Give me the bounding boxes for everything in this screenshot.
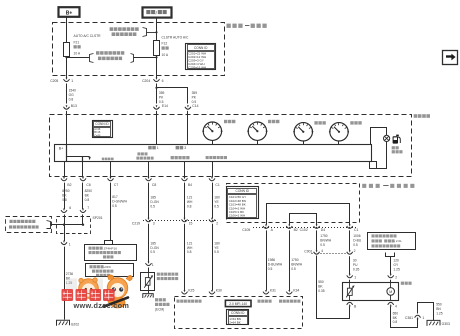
junction node on F21 wire <box>65 56 67 58</box>
svg-text:550: 550 <box>436 303 442 307</box>
svg-text:0.5: 0.5 <box>214 204 219 208</box>
cluster internal module bar <box>55 145 372 162</box>
wire 30 PU 0.35 <box>349 256 351 274</box>
svg-text:3: 3 <box>184 146 186 150</box>
reference bracket: 线路系统 中的 配电示意图 (middle) <box>67 57 90 59</box>
label 信息中心电源 inside ECM <box>279 300 300 303</box>
svg-text:1540: 1540 <box>69 89 77 93</box>
svg-text:1: 1 <box>71 79 73 83</box>
svg-text:- ZF4HP16: - ZF4HP16 <box>102 246 117 250</box>
svg-text:C14: C14 <box>192 104 198 108</box>
connector K25 <box>182 292 188 294</box>
svg-text:OG: OG <box>69 93 75 97</box>
connector C14 into cluster <box>185 107 191 109</box>
svg-text:0.5: 0.5 <box>214 250 219 254</box>
svg-text:C1: C1 <box>354 228 358 232</box>
wire below F21 <box>66 57 68 78</box>
fuse F12 CLSTR AUTO A/C 10A <box>156 39 158 41</box>
svg-text:0.8: 0.8 <box>393 320 398 324</box>
watermark mascot 2 (orange rabbit with brush) <box>101 275 133 308</box>
connector pin 7 <box>80 210 86 212</box>
svg-text:+OFF: +OFF <box>103 265 111 269</box>
label 驾驶室--仪表板 <box>227 24 243 28</box>
svg-text:4: 4 <box>321 249 323 253</box>
svg-text:C204: C204 <box>142 79 150 83</box>
svg-text:B4: B4 <box>188 183 192 187</box>
pointer bracket to reference box <box>105 241 113 245</box>
wire 550 BN 1.25 to ground <box>418 303 434 321</box>
svg-text:D-GN/WH: D-GN/WH <box>112 199 127 203</box>
svg-text:120: 120 <box>393 259 399 263</box>
bridge wire B2 to D4 <box>290 214 317 225</box>
wire RUN/START feed down <box>156 18 158 40</box>
instrument cluster dashed box 组合仪表 <box>50 115 412 177</box>
reference box: 自动变速器-ZF4HP16 中的 自动变速器控制示意图 <box>85 245 137 261</box>
svg-text:G202: G202 <box>71 323 79 327</box>
fuel level sender (variable resistor) <box>347 288 352 295</box>
ground G202 <box>57 320 70 326</box>
harness pass-through dashed box <box>227 184 360 223</box>
splice pack SP201 dashed box <box>57 217 91 234</box>
svg-text:K25: K25 <box>188 289 194 293</box>
svg-text:- 2.0L: - 2.0L <box>394 239 402 243</box>
wire 8250 BK 0.8 (C6) <box>82 183 84 209</box>
power feed box RUN/START 运行/启动 <box>143 7 172 17</box>
svg-text:K31: K31 <box>270 289 276 293</box>
svg-text:C219: C219 <box>132 221 140 225</box>
svg-text:0.5: 0.5 <box>112 204 117 208</box>
svg-text:8250: 8250 <box>62 189 70 193</box>
wires bar bottom to cluster connectors <box>64 162 66 178</box>
svg-text:BN: BN <box>436 307 441 311</box>
wire 1540 OG 0.8 <box>66 84 68 104</box>
wire 817 D-GN/WH 0.5 <box>110 183 112 240</box>
fuel warning lamp circuit wire <box>371 128 387 145</box>
junction node at split <box>155 87 157 89</box>
svg-text:C106=2 WH: C106=2 WH <box>229 214 245 218</box>
wire 2736 BK 1.25 to ground <box>64 247 66 320</box>
label 燃油警告灯 <box>392 146 399 149</box>
svg-text:8250: 8250 <box>85 189 93 193</box>
ground G303 <box>427 320 440 326</box>
svg-text:1.25: 1.25 <box>393 267 400 271</box>
svg-text:0.35: 0.35 <box>318 289 325 293</box>
svg-text:CONN ID: CONN ID <box>231 311 245 315</box>
svg-text:6: 6 <box>162 79 164 83</box>
connector pin 1 (fuel sender) <box>347 275 353 277</box>
svg-text:1: 1 <box>152 263 154 267</box>
svg-text:(ECM): (ECM) <box>155 308 164 312</box>
wire 121 WH 0.8 (upper) <box>184 183 186 218</box>
wire lamp to bar stub <box>377 142 387 169</box>
svg-text:C=56: C=56 <box>94 133 101 137</box>
power feed box B+ <box>59 7 80 17</box>
svg-text:359: 359 <box>192 91 198 95</box>
cluster bottom connectors B2 C6 C7 C8 B4 C1 <box>61 178 67 180</box>
page continuation arrow box <box>443 51 458 65</box>
top dashed box - power distribution (dash panel) <box>53 23 225 76</box>
wire 180 YE 0.5 (lower) <box>212 224 214 291</box>
svg-text:1: 1 <box>422 316 424 320</box>
svg-text:2.0 MFI-140: 2.0 MFI-140 <box>229 302 247 306</box>
wire 1750 BN/WH 0.5 to ECM K34 <box>289 230 291 290</box>
svg-text:C7: C7 <box>114 183 118 187</box>
svg-text:4: 4 <box>395 304 397 308</box>
wire 650 BK 0.8 pump return <box>391 307 418 328</box>
label 燃油液面信号 <box>206 156 227 159</box>
svg-text:550: 550 <box>318 280 324 284</box>
svg-text:F12: F12 <box>162 42 168 46</box>
wire 185 D-GN 0.5 (lower) <box>148 224 150 262</box>
watermark faint gray text <box>66 279 103 290</box>
svg-text:2=64 BK: 2=64 BK <box>229 321 241 325</box>
connector K34 <box>286 292 292 294</box>
svg-text:7: 7 <box>87 206 89 210</box>
svg-text:M: M <box>389 290 392 294</box>
watermark red text 维库一下 <box>62 289 115 301</box>
svg-text:1.25: 1.25 <box>436 311 443 315</box>
label 点火1 <box>148 146 156 150</box>
fuse F21 AUTO A/C CLSTR 10A <box>64 43 70 57</box>
CONN ID table (C201-C205) <box>186 44 216 70</box>
fuel pump icon <box>393 136 398 143</box>
connector row C219 <box>143 220 216 222</box>
svg-text:1986: 1986 <box>268 258 276 262</box>
svg-text:0.8: 0.8 <box>187 250 192 254</box>
wire 8250 BK 0.8 (B2) <box>64 183 66 209</box>
svg-text:E14: E14 <box>162 104 168 108</box>
svg-text:BN/WH: BN/WH <box>320 238 332 242</box>
CONN ID table (cluster A/B/C) <box>93 121 113 138</box>
gauge speedometer 车速表 <box>203 122 221 140</box>
svg-text:0.5: 0.5 <box>268 267 273 271</box>
svg-text:CONN ID: CONN ID <box>95 122 109 126</box>
svg-text:SP201: SP201 <box>93 216 103 220</box>
junction node on F12 wire <box>155 56 157 58</box>
label 熔断 (fuse) <box>74 45 81 48</box>
svg-text:121: 121 <box>187 196 193 200</box>
svg-text:10 A: 10 A <box>74 52 81 56</box>
label box 2.0 MFI-140 <box>225 300 251 306</box>
svg-text:15: 15 <box>189 221 193 225</box>
gauge temperature 温度表 <box>294 123 312 141</box>
svg-text:1: 1 <box>69 242 71 246</box>
label 熔断 (fuse) <box>162 46 169 49</box>
label 发动机转速 <box>171 156 190 159</box>
connector C205 pin 1 <box>64 79 70 81</box>
svg-text:F21: F21 <box>74 40 80 44</box>
connector K31 <box>263 292 269 294</box>
svg-text:D4: D4 <box>321 228 325 232</box>
connector B13 into cluster <box>64 107 70 109</box>
label 点火3 <box>176 146 184 150</box>
connector pin 2 (fuel pump) <box>388 275 394 277</box>
svg-text:1750: 1750 <box>320 234 328 238</box>
svg-text:0.8: 0.8 <box>69 97 74 101</box>
wire below F12 <box>156 56 158 78</box>
connector K30 <box>209 292 215 294</box>
connector pin 4 (pump return) <box>388 302 394 304</box>
svg-text:CLSTR AUTO A/C: CLSTR AUTO A/C <box>162 35 189 39</box>
connector C381 pin 1 <box>415 315 421 317</box>
svg-text:2: 2 <box>354 249 356 253</box>
svg-text:0.35: 0.35 <box>353 267 360 271</box>
wire 1006 D-BU 0.5 (C1 to C901) <box>349 230 351 250</box>
svg-text:C1: C1 <box>215 183 219 187</box>
svg-text:BN/WH: BN/WH <box>291 263 303 267</box>
watermark mascot 1 (orange) <box>79 278 99 299</box>
svg-text:185: 185 <box>150 196 156 200</box>
svg-text:650: 650 <box>393 311 399 315</box>
inline connector row C105/C102 <box>253 227 356 229</box>
gauge fuel 燃油表 <box>330 123 348 141</box>
svg-text:10 A: 10 A <box>162 53 169 57</box>
CONN ID table (ECM) <box>227 310 249 325</box>
wire 185 D-GN 0.5 (upper) <box>148 183 150 218</box>
bar stub connector block <box>370 162 377 169</box>
svg-text:1750: 1750 <box>291 258 299 262</box>
svg-text:www.dzsc.com: www.dzsc.com <box>73 301 130 310</box>
internal wire to ground pin <box>82 156 84 161</box>
connector pin 1 (ground run) <box>61 242 67 244</box>
connector pin B (sender return) <box>347 302 353 304</box>
wire ECT to ground <box>148 291 150 294</box>
bridge wire C105-A to C1 <box>267 204 350 225</box>
svg-text:K30: K30 <box>216 289 222 293</box>
wire 180 YE 0.5 (upper) <box>212 183 214 218</box>
svg-text:K34: K34 <box>293 289 299 293</box>
fuel pump motor M <box>390 283 392 288</box>
svg-text:G303: G303 <box>442 322 450 326</box>
svg-text:B2: B2 <box>294 228 298 232</box>
wire B+ feed down <box>66 17 68 42</box>
reference box: 发动机控制系统-2.0L 中的 发动机控制模块电路图 <box>368 233 416 250</box>
svg-text:WH: WH <box>187 246 193 250</box>
svg-text:B13: B13 <box>71 104 77 108</box>
reference dashed box: 线路系统 中的 接地分布示意图 <box>6 217 52 233</box>
wire split from C204 <box>156 84 158 104</box>
svg-text:WH: WH <box>187 200 193 204</box>
label 发动机冷却液 温度表传感器 <box>157 273 178 276</box>
svg-text:B2: B2 <box>67 183 71 187</box>
connector E14 into cluster <box>154 107 160 109</box>
svg-text:1006: 1006 <box>353 234 361 238</box>
svg-text:C105: C105 <box>242 228 250 232</box>
svg-text:1: 1 <box>157 146 159 150</box>
svg-text:D-BU: D-BU <box>353 238 362 242</box>
svg-text:C8: C8 <box>152 183 156 187</box>
svg-text:C6: C6 <box>86 183 90 187</box>
svg-text:2: 2 <box>216 221 218 225</box>
label 发动机 控制模块 (ECM) <box>155 298 166 301</box>
svg-text:30: 30 <box>353 259 357 263</box>
wire 550 BK 0.35 sender return loop <box>317 256 350 319</box>
label 驾驶室--发动机舱 <box>362 184 380 188</box>
svg-text:3: 3 <box>153 221 155 225</box>
svg-text:GY: GY <box>393 263 399 267</box>
ground bus inside SP201 <box>51 224 83 226</box>
label 燃油液位 inside ECM <box>258 300 272 303</box>
svg-text:0.8: 0.8 <box>62 198 67 202</box>
svg-text:D-GN: D-GN <box>150 246 159 250</box>
wire SP201 to connector <box>64 225 66 241</box>
svg-text:0.5: 0.5 <box>353 243 358 247</box>
ground (ECT sensor) <box>143 294 153 298</box>
wire 120 GY 1.25 <box>390 256 392 274</box>
fuel tank module box 燃油泵 <box>343 283 399 301</box>
svg-text:CONN ID: CONN ID <box>236 189 250 193</box>
svg-text:6: 6 <box>69 206 71 210</box>
ECT sensor box 发动机冷却液温度表传感器 <box>141 273 155 291</box>
label 组合仪表 <box>414 114 430 118</box>
pointer bracket from reference box <box>386 253 391 257</box>
label 发动机转速信号 inside ECM <box>177 300 202 303</box>
svg-text:817: 817 <box>112 195 118 199</box>
svg-text:0.5: 0.5 <box>150 204 155 208</box>
svg-text:C901: C901 <box>304 250 312 254</box>
svg-text:2736: 2736 <box>66 272 74 276</box>
wire 1986 D-BU/WH 0.5 to ECM K31 <box>266 230 268 290</box>
connector pin 1 (ECT sensor) <box>146 263 152 265</box>
label 冷却液温度表控制 <box>137 152 147 155</box>
svg-text:121: 121 <box>187 241 193 245</box>
wire 1750 BN/WH 0.5 (D4 to C901) <box>316 230 318 250</box>
connector C204 pin 6 <box>154 79 160 81</box>
label 车速信号 <box>102 158 114 161</box>
svg-text:185: 185 <box>150 241 156 245</box>
svg-text:PU: PU <box>353 263 358 267</box>
svg-text:0.5: 0.5 <box>320 243 325 247</box>
svg-text:B+: B+ <box>66 10 73 16</box>
svg-text:D-BU/WH: D-BU/WH <box>268 263 283 267</box>
lamp 燃油警告灯 symbol <box>384 135 390 141</box>
svg-text:180: 180 <box>214 196 220 200</box>
reference box: 手动变速器+OFF 中的 手动变速指示灯图 <box>86 264 134 277</box>
svg-text:0.8: 0.8 <box>85 198 90 202</box>
svg-text:0.5: 0.5 <box>291 267 296 271</box>
svg-text:C102: C102 <box>300 228 308 232</box>
svg-text:180: 180 <box>214 241 220 245</box>
gauge tachometer 转速表 <box>248 122 266 140</box>
internal wire from B+ with arrow <box>66 145 68 162</box>
svg-text:D-GN: D-GN <box>150 200 159 204</box>
CONN ID table (C101-C106) <box>227 187 259 219</box>
reference bracket: 线路系统 中的 配电示意图 (top) <box>110 27 139 31</box>
wire 121 WH 0.8 (lower) <box>184 224 186 291</box>
svg-text:0.8: 0.8 <box>187 204 192 208</box>
connector pin 6 <box>61 210 67 212</box>
ECM dashed box <box>175 297 303 329</box>
svg-text:0.5: 0.5 <box>150 250 155 254</box>
svg-text:B+: B+ <box>59 147 64 151</box>
svg-text:359: 359 <box>159 91 165 95</box>
bracket to ground bus <box>47 221 52 229</box>
svg-text:C381: C381 <box>405 316 413 320</box>
svg-text:C205: C205 <box>50 79 58 83</box>
svg-text:AUTO A/C CLSTR: AUTO A/C CLSTR <box>74 34 102 38</box>
svg-text:1: 1 <box>354 275 356 279</box>
svg-text:C205=16 WH: C205=16 WH <box>188 65 206 69</box>
svg-text:CONN ID: CONN ID <box>194 46 208 50</box>
svg-text:2: 2 <box>395 275 397 279</box>
junction node on RUN/START wire <box>155 31 157 33</box>
